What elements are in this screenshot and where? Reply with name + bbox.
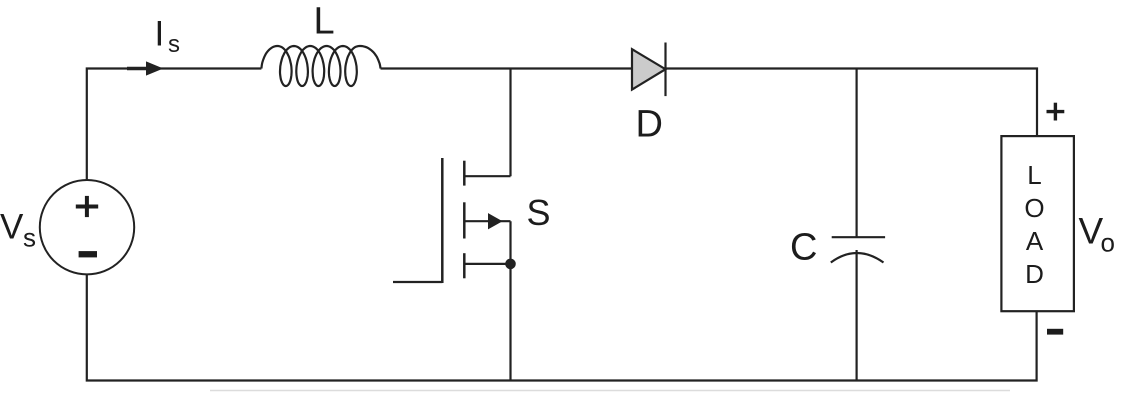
svg-text:I: I xyxy=(155,15,165,54)
svg-text:A: A xyxy=(1026,226,1044,256)
svg-text:D: D xyxy=(1025,259,1044,289)
svg-text:O: O xyxy=(1024,193,1044,223)
svg-text:D: D xyxy=(636,103,663,145)
svg-text:o: o xyxy=(1101,228,1115,258)
svg-text:V: V xyxy=(0,208,24,247)
svg-text:s: s xyxy=(168,31,180,58)
svg-text:s: s xyxy=(23,222,36,252)
svg-text:S: S xyxy=(527,192,551,233)
svg-text:L: L xyxy=(314,0,335,42)
svg-text:L: L xyxy=(1027,160,1041,190)
svg-text:C: C xyxy=(790,227,817,269)
